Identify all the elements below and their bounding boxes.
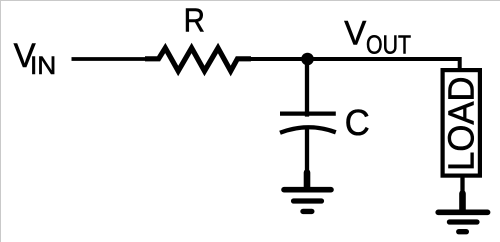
svg-text:IN: IN <box>30 52 56 80</box>
wire from node A down to capacitor <box>305 59 309 117</box>
ground below load <box>438 194 487 232</box>
ground below capacitor <box>284 173 331 212</box>
svg-text:V: V <box>344 15 366 53</box>
svg-text:LOAD: LOAD <box>441 76 482 170</box>
wire from load box to ground <box>460 176 464 192</box>
wire from VIN to resistor R <box>72 57 151 61</box>
node VIN label <box>14 37 57 80</box>
resistor R <box>145 48 251 71</box>
wire from capacitor to ground <box>305 127 309 176</box>
capacitor C1 flat plate <box>280 111 336 115</box>
label LOAD <box>441 76 482 170</box>
svg-text:OUT: OUT <box>366 29 411 59</box>
svg-text:R: R <box>184 2 205 39</box>
capacitor C1 curved plate <box>280 127 336 133</box>
svg-text:C: C <box>345 102 370 143</box>
node VOUT label <box>344 15 411 60</box>
wire from resistor to node and down to LOAD <box>237 59 460 72</box>
label C <box>345 102 370 143</box>
node A junction dot <box>301 53 314 66</box>
label R <box>184 2 205 39</box>
load box <box>443 70 480 176</box>
